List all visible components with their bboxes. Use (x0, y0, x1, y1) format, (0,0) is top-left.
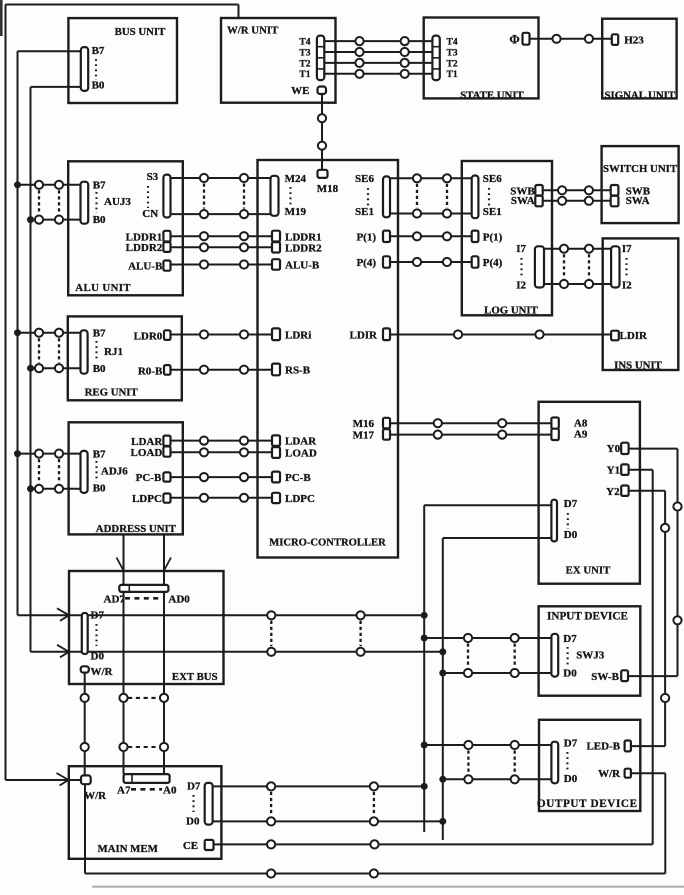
svg-text:B7: B7 (92, 45, 105, 57)
svg-text:B0: B0 (93, 214, 106, 226)
svg-text:STATE UNIT: STATE UNIT (460, 89, 524, 101)
svg-text:T1: T1 (447, 70, 458, 80)
svg-text:B0: B0 (92, 80, 105, 92)
svg-text:D7: D7 (563, 633, 577, 645)
svg-text:SWJ3: SWJ3 (576, 650, 605, 662)
svg-text:D7: D7 (564, 498, 578, 510)
svg-text:S3: S3 (147, 171, 159, 183)
svg-text:M18: M18 (317, 183, 339, 195)
svg-text:ADJ6: ADJ6 (101, 466, 128, 478)
svg-text:LDPC: LDPC (132, 493, 162, 505)
svg-text:ALU-B: ALU-B (128, 260, 163, 272)
svg-text:ALU UNIT: ALU UNIT (75, 282, 131, 294)
svg-text:I2: I2 (516, 279, 526, 291)
svg-text:MAIN MEM: MAIN MEM (98, 843, 158, 855)
svg-text:A9: A9 (574, 429, 588, 441)
svg-text:W/R: W/R (598, 768, 621, 780)
svg-text:P(4): P(4) (483, 257, 503, 269)
svg-text:T3: T3 (299, 48, 310, 58)
svg-text:SE1: SE1 (483, 206, 502, 218)
svg-text:RS-B: RS-B (285, 365, 311, 377)
svg-text:PC-B: PC-B (136, 472, 162, 484)
svg-text:LOAD: LOAD (285, 448, 317, 460)
svg-text:LDR0: LDR0 (134, 330, 163, 342)
svg-text:INS UNIT: INS UNIT (614, 360, 662, 372)
svg-text:D0: D0 (564, 773, 578, 785)
svg-text:B0: B0 (93, 482, 106, 494)
svg-text:B0: B0 (93, 363, 106, 375)
svg-text:REG UNIT: REG UNIT (85, 387, 139, 399)
svg-text:AD0: AD0 (168, 594, 190, 606)
svg-text:LDRi: LDRi (285, 329, 311, 341)
svg-text:LDAR: LDAR (285, 436, 317, 448)
svg-text:B7: B7 (93, 180, 106, 192)
svg-text:Y0: Y0 (607, 443, 621, 455)
svg-text:SWITCH UNIT: SWITCH UNIT (603, 163, 678, 175)
svg-text:CN: CN (142, 208, 158, 220)
svg-text:T2: T2 (447, 59, 458, 69)
svg-text:LED-B: LED-B (586, 741, 620, 753)
svg-text:T3: T3 (447, 48, 458, 58)
svg-text:T1: T1 (299, 70, 310, 80)
svg-text:PC-B: PC-B (285, 472, 311, 484)
svg-text:P(1): P(1) (483, 231, 503, 243)
svg-text:T4: T4 (299, 38, 310, 48)
svg-text:P(1): P(1) (356, 231, 376, 243)
svg-text:P(4): P(4) (356, 257, 376, 269)
svg-text:LDPC: LDPC (285, 493, 315, 505)
svg-text:LOG UNIT: LOG UNIT (484, 305, 538, 317)
svg-text:D7: D7 (187, 780, 201, 792)
svg-text:M24: M24 (285, 173, 307, 185)
svg-text:WE: WE (291, 85, 309, 97)
svg-text:W/R: W/R (91, 666, 114, 678)
svg-text:B7: B7 (93, 327, 106, 339)
svg-text:EX UNIT: EX UNIT (566, 565, 611, 577)
svg-text:M16: M16 (353, 418, 375, 430)
svg-text:M19: M19 (285, 206, 307, 218)
svg-text:T4: T4 (447, 38, 458, 48)
svg-text:D7: D7 (564, 737, 578, 749)
svg-text:I7: I7 (622, 243, 632, 255)
svg-text:INPUT DEVICE: INPUT DEVICE (547, 611, 628, 623)
svg-text:SW-B: SW-B (591, 671, 619, 683)
svg-text:MICRO-CONTROLLER: MICRO-CONTROLLER (269, 538, 386, 549)
svg-text:D0: D0 (564, 529, 578, 541)
svg-text:AD7: AD7 (104, 594, 126, 606)
svg-text:R0-B: R0-B (138, 366, 163, 378)
svg-text:W/R: W/R (84, 790, 107, 802)
svg-text:W/R UNIT: W/R UNIT (227, 25, 279, 37)
svg-text:LDIR: LDIR (349, 329, 378, 341)
svg-text:RJ1: RJ1 (104, 346, 123, 358)
svg-text:SE6: SE6 (355, 173, 374, 185)
svg-text:ADDRESS UNIT: ADDRESS UNIT (96, 523, 177, 535)
svg-text:ALU-B: ALU-B (285, 260, 320, 272)
svg-text:B7: B7 (93, 449, 106, 461)
svg-text:LDIR: LDIR (620, 330, 649, 342)
svg-text:BUS UNIT: BUS UNIT (115, 26, 166, 38)
svg-text:SE6: SE6 (483, 173, 502, 185)
svg-text:AUJ3: AUJ3 (104, 196, 131, 208)
svg-text:LDDR2: LDDR2 (285, 243, 322, 255)
svg-text:Y2: Y2 (606, 486, 620, 498)
svg-text:H23: H23 (624, 34, 644, 46)
svg-text:D0: D0 (186, 815, 200, 827)
svg-text:SE1: SE1 (355, 206, 374, 218)
svg-text:LOAD: LOAD (131, 447, 163, 459)
svg-text:OUTPUT DEVICE: OUTPUT DEVICE (537, 798, 638, 810)
svg-text:I7: I7 (516, 243, 526, 255)
svg-text:SWA: SWA (511, 195, 535, 207)
svg-text:LDDR2: LDDR2 (126, 242, 163, 254)
svg-text:SIGNAL UNIT: SIGNAL UNIT (605, 89, 676, 101)
svg-text:D0: D0 (563, 668, 577, 680)
svg-text:CE: CE (183, 840, 198, 852)
svg-text:EXT BUS: EXT BUS (172, 671, 218, 683)
svg-text:A0: A0 (163, 784, 177, 796)
svg-text:I2: I2 (622, 279, 632, 291)
svg-text:M17: M17 (353, 429, 375, 441)
svg-text:SWA: SWA (626, 195, 650, 207)
svg-text:T2: T2 (299, 59, 310, 69)
svg-text:A7: A7 (117, 784, 131, 796)
svg-text:Y1: Y1 (607, 464, 620, 476)
svg-text:Φ: Φ (509, 33, 519, 47)
